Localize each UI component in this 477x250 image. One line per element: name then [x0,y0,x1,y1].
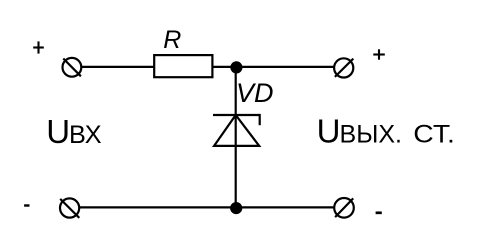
svg-text:ВЫХ.: ВЫХ. [340,120,403,148]
svg-text:U: U [46,113,70,150]
svg-text:VD: VD [236,78,274,108]
svg-text:R: R [163,26,181,54]
svg-text:ВХ: ВХ [69,121,102,149]
svg-text:СТ.: СТ. [413,120,455,148]
svg-text:U: U [317,112,341,149]
